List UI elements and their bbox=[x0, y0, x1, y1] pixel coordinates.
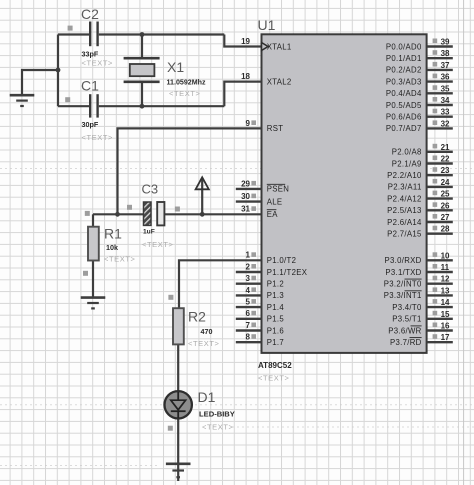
node pin 14 (P3.4/T0) right side bbox=[392, 298, 453, 312]
node pin 15 (P3.5/T1) right side bbox=[392, 310, 453, 324]
svg-text:15: 15 bbox=[441, 310, 450, 319]
svg-text:P1.6: P1.6 bbox=[267, 326, 284, 335]
node pin 5 (P1.4) left side bbox=[236, 298, 285, 312]
svg-text:P3.4/T0: P3.4/T0 bbox=[392, 303, 422, 312]
svg-text:10: 10 bbox=[441, 251, 450, 260]
node pin 38 (P0.1/AD1) right side bbox=[386, 49, 453, 63]
svg-text:33: 33 bbox=[441, 108, 450, 117]
svg-text:14: 14 bbox=[441, 298, 450, 307]
svg-text:U1: U1 bbox=[258, 17, 276, 33]
svg-text:<TEXT>: <TEXT> bbox=[202, 423, 234, 432]
wire: reset rail from R1 top to C3 left plate bbox=[93, 213, 143, 215]
svg-text:ALE: ALE bbox=[267, 197, 283, 206]
node pin 9 (RST) left side bbox=[246, 119, 284, 133]
wire: GND3 stem continuing below bars bbox=[177, 464, 179, 481]
capacitor C1 bbox=[81, 78, 113, 143]
svg-text:P3.1/TXD: P3.1/TXD bbox=[385, 268, 421, 277]
svg-text:R1: R1 bbox=[104, 226, 122, 242]
svg-text:37: 37 bbox=[441, 61, 450, 70]
svg-text:P3.0/RXD: P3.0/RXD bbox=[385, 256, 422, 265]
node: junction of power stem on reset rail bbox=[200, 212, 205, 217]
node pin 2 (P1.1/T2EX) left side bbox=[236, 262, 308, 276]
node pin 26 (P2.5/A13) right side bbox=[387, 201, 453, 215]
node pin 6 (P1.5) left side bbox=[236, 309, 285, 323]
node pin 28 (P2.7/A15) right side bbox=[387, 225, 453, 239]
node pin 37 (P0.2/AD2) right side bbox=[386, 61, 453, 75]
node marker near R2 top bbox=[168, 295, 173, 300]
svg-text:P2.7/A15: P2.7/A15 bbox=[387, 230, 422, 239]
svg-text:5: 5 bbox=[246, 298, 251, 307]
wire: reset rail from C3 right plate to EA pin 31 bbox=[164, 213, 261, 215]
svg-text:<TEXT>: <TEXT> bbox=[82, 59, 114, 68]
svg-text:P0.0/AD0: P0.0/AD0 bbox=[386, 42, 422, 51]
svg-text:P3.5/T1: P3.5/T1 bbox=[392, 315, 421, 324]
svg-text:XTAL2: XTAL2 bbox=[267, 77, 292, 86]
wire: LED D1 cathode to GND3 bbox=[177, 418, 179, 463]
wire: top rail from rail to C2 left plate bbox=[58, 33, 89, 35]
svg-text:29: 29 bbox=[241, 179, 250, 188]
svg-text:28: 28 bbox=[441, 225, 450, 234]
node pin 31 (EA) left side bbox=[241, 205, 278, 219]
svg-text:13: 13 bbox=[441, 286, 450, 295]
node pin 29 (PSEN) left side bbox=[236, 179, 289, 193]
node marker near R1 bottom bbox=[83, 271, 88, 276]
svg-text:P1.1/T2EX: P1.1/T2EX bbox=[267, 268, 308, 277]
node pin 7 (P1.6) left side bbox=[236, 321, 284, 335]
svg-text:P2.3/A11: P2.3/A11 bbox=[388, 183, 422, 192]
svg-text:7: 7 bbox=[246, 321, 251, 330]
svg-text:19: 19 bbox=[241, 37, 250, 46]
svg-text:1: 1 bbox=[246, 251, 251, 260]
svg-text:P0.6/AD6: P0.6/AD6 bbox=[386, 113, 422, 122]
svg-text:P2.5/A13: P2.5/A13 bbox=[387, 206, 421, 215]
node pin 32 (P0.7/AD7) right side bbox=[386, 119, 453, 133]
wire: R2 bottom lead to LED D1 anode bbox=[177, 344, 179, 392]
wire: rise into XTAL2 pin 18 bbox=[224, 82, 261, 107]
ground GND1 (crystal caps) bbox=[10, 95, 35, 106]
node pin 3 (P1.2) left side bbox=[236, 274, 284, 288]
node marker near C1 bbox=[65, 97, 70, 102]
svg-text:39: 39 bbox=[441, 38, 450, 47]
svg-text:R2: R2 bbox=[188, 309, 206, 325]
svg-text:2: 2 bbox=[246, 262, 251, 271]
node pin 34 (P0.5/AD5) right side bbox=[386, 96, 453, 110]
node pin 13 (P3.3/INT1) right side bbox=[384, 286, 453, 300]
node pin 27 (P2.6/A14) right side bbox=[387, 213, 453, 227]
svg-text:P3.2/INT0: P3.2/INT0 bbox=[384, 280, 422, 289]
wire: crystal X1 bottom lead to bottom rail bbox=[141, 82, 143, 106]
node pin 19 (XTAL1) left side bbox=[241, 37, 291, 51]
node pin 22 (P2.1/A9) right side bbox=[392, 155, 453, 169]
svg-text:<TEXT>: <TEXT> bbox=[169, 89, 201, 98]
svg-text:P0.7/AD7: P0.7/AD7 bbox=[386, 124, 422, 133]
svg-text:6: 6 bbox=[246, 309, 251, 318]
svg-text:P2.1/A9: P2.1/A9 bbox=[392, 159, 422, 168]
svg-text:P0.4/AD4: P0.4/AD4 bbox=[386, 89, 422, 98]
node pin 11 (P3.1/TXD) right side bbox=[385, 263, 452, 277]
svg-text:<TEXT>: <TEXT> bbox=[82, 133, 114, 142]
resistor R1 10k bbox=[88, 226, 136, 264]
node pin 30 (ALE) left side bbox=[236, 192, 283, 206]
resistor R2 470 bbox=[173, 308, 220, 348]
wire: drop into XTAL1 pin 19 bbox=[224, 35, 261, 47]
svg-text:12: 12 bbox=[441, 275, 450, 284]
svg-text:P1.3: P1.3 bbox=[267, 291, 284, 300]
svg-text:4: 4 bbox=[246, 286, 251, 295]
capacitor C2 bbox=[81, 6, 113, 68]
svg-text:<TEXT>: <TEXT> bbox=[142, 240, 174, 249]
clock input arrow on XTAL1 bbox=[262, 43, 269, 51]
node pin 1 (P1.0/T2) left side bbox=[246, 251, 297, 265]
svg-text:24: 24 bbox=[441, 178, 450, 187]
svg-text:32: 32 bbox=[441, 119, 450, 128]
node: junction of ground branch on left rail bbox=[56, 68, 61, 73]
node pin 33 (P0.6/AD6) right side bbox=[386, 108, 453, 122]
svg-text:3: 3 bbox=[246, 274, 251, 283]
svg-text:AT89C52: AT89C52 bbox=[258, 361, 292, 370]
svg-text:470: 470 bbox=[201, 327, 213, 336]
svg-text:LED-BIBY: LED-BIBY bbox=[199, 410, 235, 419]
node pin 36 (P0.3/AD3) right side bbox=[386, 73, 453, 87]
svg-text:P3.7/RD: P3.7/RD bbox=[390, 338, 422, 347]
svg-text:P0.2/AD2: P0.2/AD2 bbox=[386, 66, 422, 75]
svg-text:21: 21 bbox=[441, 143, 450, 152]
svg-text:1uF: 1uF bbox=[143, 229, 155, 236]
svg-text:22: 22 bbox=[441, 155, 450, 164]
node pin 4 (P1.3) left side bbox=[236, 286, 284, 300]
svg-text:<TEXT>: <TEXT> bbox=[188, 339, 220, 348]
IC U1 AT89C52 microcontroller body bbox=[258, 17, 427, 383]
svg-text:P2.4/A12: P2.4/A12 bbox=[387, 194, 421, 203]
svg-text:33pF: 33pF bbox=[82, 50, 99, 59]
svg-text:P0.5/AD5: P0.5/AD5 bbox=[386, 101, 422, 110]
node: junction of RST drop on reset rail bbox=[115, 212, 120, 217]
node: junction of X1 top lead on top rail bbox=[140, 32, 145, 37]
svg-text:27: 27 bbox=[441, 213, 450, 222]
node pin 18 (XTAL2) left side bbox=[241, 72, 291, 86]
svg-text:18: 18 bbox=[241, 72, 250, 81]
node pin 24 (P2.3/A11) right side bbox=[388, 178, 453, 192]
svg-text:P1.0/T2: P1.0/T2 bbox=[267, 256, 296, 265]
node pin 25 (P2.4/A12) right side bbox=[387, 190, 453, 204]
wire: faint dotted guide line across lower sheet bbox=[0, 169, 474, 466]
wire: power arrow stem down to reset rail bbox=[201, 179, 203, 215]
capacitor C3 (polarised 1uF) bbox=[142, 182, 174, 250]
svg-text:11.0592Mhz: 11.0592Mhz bbox=[167, 79, 206, 87]
svg-text:P2.0/A8: P2.0/A8 bbox=[392, 148, 422, 157]
node pin 17 (P3.7/RD) right side bbox=[390, 333, 453, 347]
svg-text:D1: D1 bbox=[198, 389, 216, 405]
wire: crystal X1 top lead to top rail bbox=[141, 35, 143, 59]
svg-text:9: 9 bbox=[246, 119, 251, 128]
svg-text:17: 17 bbox=[441, 333, 450, 342]
crystal X1 11.0592Mhz bbox=[124, 58, 206, 98]
node marker near C3 right bbox=[175, 207, 180, 212]
svg-text:<TEXT>: <TEXT> bbox=[258, 374, 290, 383]
wire: ground branch from left rail at node (58,70) to GND1 bbox=[22, 70, 58, 95]
svg-text:PSEN: PSEN bbox=[267, 185, 289, 194]
node marker left of reset rail bbox=[85, 211, 90, 216]
svg-text:30pF: 30pF bbox=[82, 120, 99, 129]
svg-text:EA: EA bbox=[267, 210, 279, 219]
power symbol (VCC arrow) bbox=[196, 177, 209, 189]
svg-text:C2: C2 bbox=[81, 6, 99, 22]
wire: RST pin 9 to reset network bbox=[118, 128, 262, 214]
svg-text:25: 25 bbox=[441, 190, 450, 199]
svg-text:RST: RST bbox=[267, 124, 284, 133]
svg-text:16: 16 bbox=[441, 322, 450, 331]
wire: R1 top lead bbox=[92, 214, 94, 227]
svg-text:X1: X1 bbox=[167, 59, 184, 75]
svg-text:XTAL1: XTAL1 bbox=[267, 42, 292, 51]
wire: bottom rail from C1 right plate to corner below XTAL2 bbox=[99, 105, 225, 107]
node marker near D1 bbox=[168, 426, 173, 431]
svg-text:35: 35 bbox=[441, 84, 450, 93]
node pin 8 (P1.7) left side bbox=[236, 333, 284, 347]
node pin 35 (P0.4/AD4) right side bbox=[386, 84, 453, 98]
svg-text:P1.7: P1.7 bbox=[267, 338, 284, 347]
LED D1 LED-BIBY bbox=[165, 389, 235, 432]
svg-text:C1: C1 bbox=[81, 78, 99, 94]
wire: top rail from C2 right plate to corner above XTAL1 bbox=[99, 33, 225, 35]
wire: P1.0 pin 1 over to R2 top bbox=[179, 260, 262, 308]
svg-text:31: 31 bbox=[241, 205, 250, 214]
svg-text:P1.5: P1.5 bbox=[267, 315, 285, 324]
svg-text:C3: C3 bbox=[142, 182, 159, 197]
svg-text:P0.1/AD1: P0.1/AD1 bbox=[386, 54, 422, 63]
wire: R1 bottom lead to GND2 bbox=[92, 260, 94, 296]
svg-text:23: 23 bbox=[441, 166, 450, 175]
svg-text:26: 26 bbox=[441, 201, 450, 210]
svg-text:P1.4: P1.4 bbox=[267, 303, 285, 312]
wire: bottom rail from rail to C1 left plate bbox=[58, 105, 89, 107]
svg-text:P3.6/WR: P3.6/WR bbox=[388, 326, 421, 335]
svg-text:8: 8 bbox=[246, 333, 251, 342]
node pin 23 (P2.2/A10) right side bbox=[387, 166, 453, 180]
svg-text:<TEXT>: <TEXT> bbox=[104, 255, 136, 264]
node pin 21 (P2.0/A8) right side bbox=[392, 143, 453, 157]
svg-text:38: 38 bbox=[441, 49, 450, 58]
node pin 10 (P3.0/RXD) right side bbox=[385, 251, 453, 265]
svg-text:10k: 10k bbox=[106, 243, 118, 252]
svg-text:34: 34 bbox=[441, 96, 450, 105]
svg-text:P2.2/A10: P2.2/A10 bbox=[387, 171, 422, 180]
node marker near C3 left bbox=[127, 205, 132, 210]
svg-text:P0.3/AD3: P0.3/AD3 bbox=[386, 77, 422, 86]
svg-text:P3.3/INT1: P3.3/INT1 bbox=[384, 291, 422, 300]
svg-text:P2.6/A14: P2.6/A14 bbox=[387, 218, 422, 227]
node: junction of X1 bottom lead on bottom rail bbox=[140, 104, 145, 109]
svg-text:36: 36 bbox=[441, 73, 450, 82]
svg-text:30: 30 bbox=[241, 192, 250, 201]
ground GND2 (below R1) bbox=[81, 298, 106, 309]
wire: left vertical rail joining C2 and C1 left plates bbox=[57, 35, 59, 107]
svg-text:11: 11 bbox=[441, 263, 450, 272]
ground GND3 (below D1) bbox=[166, 464, 191, 477]
node pin 12 (P3.2/INT0) right side bbox=[384, 275, 453, 289]
svg-text:P1.2: P1.2 bbox=[267, 280, 284, 289]
node marker near C2 bbox=[68, 26, 73, 31]
node pin 39 (P0.0/AD0) right side bbox=[386, 38, 453, 52]
node pin 16 (P3.6/WR) right side bbox=[388, 322, 452, 336]
